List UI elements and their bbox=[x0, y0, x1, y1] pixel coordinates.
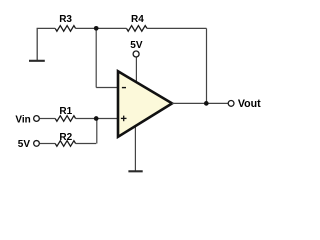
wire 5V to R2 bbox=[40, 143, 55, 145]
node output junction dot bbox=[204, 101, 209, 106]
wire node A down to inverting input bbox=[95, 28, 97, 87]
node A junction dot bbox=[94, 26, 99, 31]
resistor R3 bbox=[55, 26, 75, 32]
wire 5V supply to op-amp top bbox=[135, 57, 137, 83]
wire node A to R4 bbox=[96, 27, 126, 29]
svg-text:R4: R4 bbox=[131, 14, 144, 25]
svg-text:5V: 5V bbox=[18, 139, 31, 150]
terminal Vout bbox=[228, 101, 234, 107]
wire R3 to node A bbox=[76, 27, 97, 29]
wire Vin to R1 bbox=[40, 118, 55, 120]
wire R1 to node B and on to non-inverting input bbox=[76, 118, 119, 120]
op-amp U1 bbox=[118, 71, 172, 137]
resistor R2 bbox=[55, 141, 75, 147]
svg-text:Vout: Vout bbox=[238, 98, 261, 110]
svg-text:R2: R2 bbox=[59, 132, 72, 143]
op-amp inverting input minus sign bbox=[122, 87, 126, 89]
wire feedback vertical down to output bbox=[206, 28, 208, 103]
svg-text:R3: R3 bbox=[59, 14, 72, 25]
wire gnd1 to R3 bbox=[37, 27, 56, 29]
wire output bbox=[172, 102, 228, 104]
node B junction dot bbox=[94, 116, 99, 121]
wire R2 right bbox=[76, 143, 97, 145]
resistor R4 bbox=[127, 26, 148, 32]
terminal 5V left bbox=[34, 141, 40, 147]
svg-text:Vin: Vin bbox=[15, 115, 30, 126]
wire op-amp bottom to ground bbox=[134, 126, 136, 171]
wire R4 to top-right corner bbox=[147, 27, 207, 29]
svg-text:R1: R1 bbox=[59, 106, 72, 117]
terminal 5V supply bbox=[133, 51, 139, 57]
ground GND2 (below op-amp) bbox=[128, 170, 142, 172]
op-amp non-inverting input plus sign bbox=[121, 116, 127, 122]
terminal Vin bbox=[34, 116, 40, 122]
wire R2 up to node B bbox=[96, 119, 98, 144]
resistor R1 bbox=[55, 116, 75, 122]
ground GND1 (top-left) bbox=[29, 28, 45, 60]
svg-text:5V: 5V bbox=[130, 40, 143, 51]
wire to inverting input bbox=[96, 87, 118, 89]
